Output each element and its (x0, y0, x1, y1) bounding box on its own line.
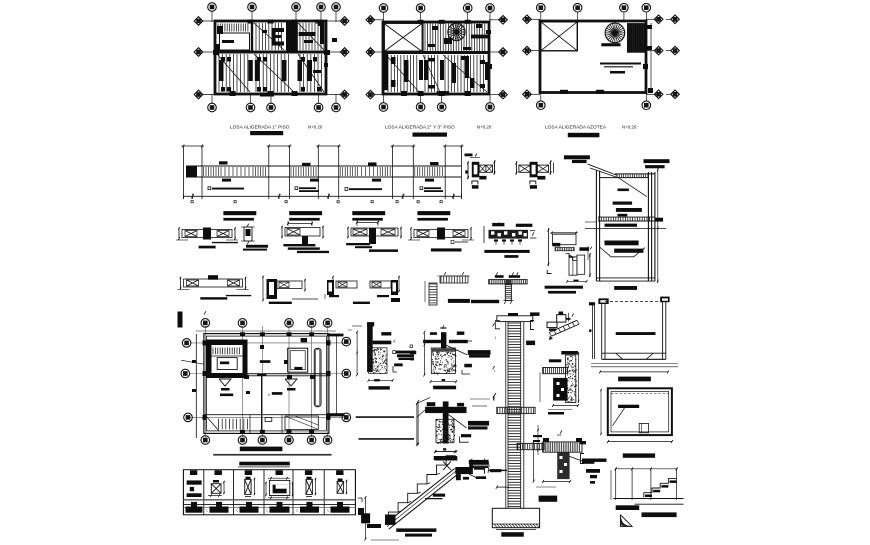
svg-text:LOSA ALIGERADA 1° PISO: LOSA ALIGERADA 1° PISO (230, 125, 290, 131)
svg-text:N+0.20: N+0.20 (477, 125, 492, 130)
svg-text:#: # (268, 393, 270, 397)
svg-text:(M): (M) (557, 433, 562, 437)
svg-text:LOSA ALIGERADA AZOTEA: LOSA ALIGERADA AZOTEA (545, 125, 607, 131)
svg-text:L: L (297, 509, 299, 513)
svg-text:LOSA ALIGERADA 2° Y 3° PISO: LOSA ALIGERADA 2° Y 3° PISO (385, 125, 455, 131)
svg-text:t: t (495, 336, 496, 340)
svg-text:L: L (267, 509, 269, 513)
svg-text:L: L (328, 509, 330, 513)
svg-text:L: L (237, 509, 239, 513)
svg-text:L: L (207, 509, 209, 513)
svg-text:N+0.20: N+0.20 (308, 125, 323, 130)
svg-text:N+0.20: N+0.20 (622, 125, 637, 130)
svg-text:xt: xt (393, 340, 396, 344)
